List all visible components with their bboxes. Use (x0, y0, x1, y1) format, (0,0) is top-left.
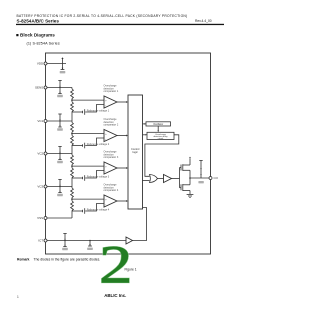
svg-text:ABLIC Inc.: ABLIC Inc. (104, 293, 126, 298)
svg-text:ICT: ICT (38, 239, 43, 243)
svg-text:VC2: VC2 (37, 152, 43, 156)
svg-text:VC3: VC3 (37, 185, 43, 189)
svg-text:BATTERY PROTECTION IC FOR 2-SE: BATTERY PROTECTION IC FOR 2-SERIAL TO 4-… (17, 14, 188, 18)
svg-text:Remark: Remark (17, 258, 30, 262)
svg-text:comparator 2: comparator 2 (104, 124, 119, 127)
svg-text:Oscillator: Oscillator (153, 123, 163, 126)
svg-text:Reference voltage 1: Reference voltage 1 (87, 109, 110, 112)
svg-text:-: - (105, 170, 106, 173)
svg-text:Reference voltage 2: Reference voltage 2 (87, 143, 110, 146)
svg-text:comparator 3: comparator 3 (104, 156, 119, 159)
svg-text:(1) S-8254A Series: (1) S-8254A Series (27, 42, 60, 46)
svg-text:-: - (105, 203, 106, 206)
svg-text:CO: CO (214, 176, 219, 180)
svg-text:comparator 4: comparator 4 (104, 189, 119, 192)
svg-text:S-8254A/B/C Series: S-8254A/B/C Series (17, 19, 60, 24)
svg-text:VDD: VDD (37, 62, 44, 66)
svg-text:Reference voltage 3: Reference voltage 3 (87, 175, 110, 178)
svg-text:-: - (105, 138, 106, 141)
svg-text:circuit: circuit (158, 137, 164, 140)
svg-text:comparator 1: comparator 1 (104, 90, 119, 93)
svg-text:-: - (105, 104, 106, 107)
svg-text:SENS: SENS (35, 86, 43, 90)
svg-text:VC1: VC1 (37, 119, 43, 123)
svg-text:logic: logic (133, 150, 139, 154)
svg-text:The diodes in the figure are p: The diodes in the figure are parasitic d… (34, 258, 101, 262)
svg-text:Rev.4.4_00: Rev.4.4_00 (195, 19, 212, 23)
svg-text:■ Block Diagrams: ■ Block Diagrams (16, 33, 55, 38)
svg-text:1: 1 (17, 295, 19, 299)
svg-text:VSS: VSS (37, 216, 43, 220)
svg-text:2: 2 (99, 235, 132, 294)
svg-text:Reference voltage 4: Reference voltage 4 (87, 208, 110, 211)
